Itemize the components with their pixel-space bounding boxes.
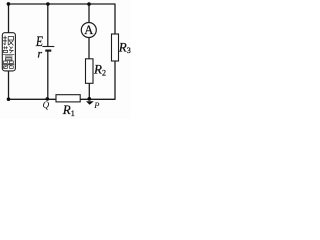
alarm box (报警器) (2, 33, 15, 71)
ammeter A circle (81, 23, 96, 38)
resistor R1 box (56, 95, 80, 102)
svg-text:A: A (84, 23, 93, 37)
wire left vertical (alarm branch) (8, 4, 10, 99)
battery E long plate (42, 46, 54, 48)
wire battery branch lower (47, 50, 49, 99)
alarm text 报 (3, 36, 13, 46)
wire right vertical (R3 branch) (114, 4, 116, 99)
resistor R2 box (86, 59, 94, 84)
resistor R3 box (112, 34, 119, 61)
alarm text 警 (3, 46, 14, 60)
battery r short thick plate (45, 49, 51, 51)
wire ammeter branch upper (88, 4, 90, 23)
node dot battery top (46, 2, 50, 6)
node dot ammeter top (87, 2, 91, 6)
node Q dot (46, 97, 50, 101)
wire ammeter to R2 (88, 37, 90, 58)
alarm text 器 (3, 61, 15, 68)
wire battery branch upper (47, 4, 49, 47)
wiper arrow at P (86, 101, 94, 104)
wire top horizontal (8, 3, 115, 5)
svg-text:r: r (37, 47, 42, 61)
node dot top-left (7, 2, 11, 6)
node P dot (87, 97, 91, 101)
svg-text:P: P (93, 100, 99, 110)
node dot bottom-left (7, 97, 11, 101)
wire R2 to node P (88, 83, 90, 99)
wire bottom horizontal (9, 98, 116, 100)
svg-text:Q: Q (43, 100, 50, 110)
